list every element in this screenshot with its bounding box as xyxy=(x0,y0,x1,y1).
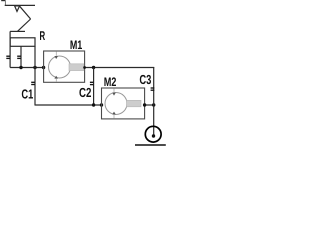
M2 bottom tick shaft xyxy=(113,115,115,119)
wire right rail xyxy=(153,67,155,135)
pilot triangle under top line xyxy=(15,6,20,11)
lever horizontal arm xyxy=(10,30,25,32)
junction dot C2 bottom xyxy=(92,103,95,106)
capacitor C1 plates xyxy=(31,82,35,84)
M1 top tick xyxy=(55,51,57,55)
capacitor C3 plates xyxy=(151,88,155,90)
junction dot M1 right xyxy=(83,66,86,69)
junction dot C2 top xyxy=(92,66,95,69)
junction dot M2 right xyxy=(143,103,146,106)
wire C1 vertical drop xyxy=(34,46,36,105)
lever diagonal 2 xyxy=(17,19,30,31)
component M1 box xyxy=(44,51,85,82)
gauge center dot xyxy=(152,134,155,137)
M1 bottom tick shaft xyxy=(55,79,57,82)
drain plates on left drop xyxy=(6,56,10,58)
label M1 xyxy=(71,41,83,50)
M2 top tick xyxy=(113,88,115,92)
wire C2 vertical drop xyxy=(93,68,95,106)
label C1 xyxy=(22,89,33,98)
wire left vertical (lever to bus) xyxy=(9,31,11,67)
motor circle M2 xyxy=(105,93,127,115)
wire bottom bus xyxy=(35,104,102,106)
label R xyxy=(40,31,45,40)
wire M2 right xyxy=(145,104,154,106)
gauge circle xyxy=(145,126,161,142)
label C3 xyxy=(140,75,151,84)
lever diagonal 1 xyxy=(20,6,31,19)
junction dot bus-M1 xyxy=(42,66,45,69)
capacitor C2 plates xyxy=(90,82,94,84)
component R box xyxy=(10,38,35,47)
wire R bottom bus xyxy=(10,67,44,69)
M1 core band xyxy=(69,64,84,71)
junction dot bus-middle xyxy=(19,66,22,69)
wire M1 right to rail xyxy=(85,67,155,69)
wire R middle drop xyxy=(20,46,22,67)
wire top-left jog xyxy=(1,0,5,2)
M1 bottom tick xyxy=(54,76,58,79)
junction dot bus-M2 xyxy=(100,103,103,106)
junction dot rail xyxy=(152,103,155,106)
junction dot bus-C1 xyxy=(33,66,36,69)
drain plates on middle drop xyxy=(17,56,21,58)
motor circle M1 xyxy=(49,56,71,78)
M2 core band xyxy=(127,100,142,107)
label C2 xyxy=(79,88,91,97)
M2 bottom tick xyxy=(112,112,116,115)
wire top horizontal line xyxy=(5,4,35,6)
label M2 xyxy=(104,77,116,86)
ground baseline xyxy=(135,144,166,146)
component M2 box xyxy=(102,88,145,119)
